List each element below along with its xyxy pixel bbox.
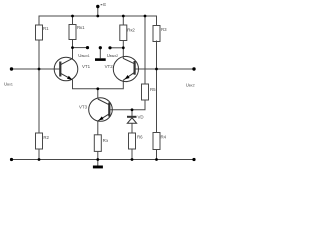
svg-text:VT3: VT3 [79, 104, 88, 109]
wire collector node to Uvyh1 terminal [73, 47, 88, 49]
wire VT2 base node to R4 [156, 69, 158, 133]
wire rail to Rk1 [72, 16, 74, 25]
resistor Rk2 [120, 25, 127, 41]
node rail junction Rk1 [71, 15, 74, 18]
node bottom R2 junction [38, 158, 41, 161]
wire input Uvx1 to VT1 base [12, 68, 61, 70]
wire bottom ground stub [97, 160, 99, 166]
resistor R5 [142, 84, 149, 100]
node rail junction Rk2 [122, 15, 125, 18]
svg-text:Uвых1: Uвых1 [78, 53, 89, 58]
node Uvyh2 terminal [108, 46, 111, 49]
wire top rail +E [39, 16, 157, 26]
node VT1 base junction [38, 68, 41, 71]
node bottom Re junction [96, 158, 99, 161]
node rail junction E [96, 15, 99, 18]
node common emitter junction [96, 87, 99, 90]
wire R5 to VD node [132, 100, 145, 110]
svg-text:Rэ: Rэ [103, 138, 109, 143]
wire R3 to VT2 base node [156, 41, 158, 70]
wire R4 to bottom rail [156, 150, 158, 160]
wire R2 to bottom rail [38, 149, 40, 160]
svg-text:R2: R2 [43, 135, 49, 140]
node rail junction R5 [144, 15, 147, 18]
node VD junction [131, 108, 134, 111]
wire Re to bottom rail [97, 151, 99, 159]
node collector VT1 junction [71, 46, 74, 49]
wire VT3 base to VD node [111, 109, 133, 111]
wire rail to R5 [144, 16, 146, 84]
wire R1 to base node [38, 40, 40, 69]
ground bottom [93, 166, 103, 169]
wire VT3 emitter to Re [97, 121, 99, 135]
svg-text:VD: VD [138, 115, 144, 120]
svg-text:Uвх2: Uвх2 [186, 82, 195, 87]
node bottom R4 junction [155, 158, 158, 161]
wire Rk1 to VT1 collector [72, 40, 74, 59]
wire common node to VT3 collector [97, 89, 99, 99]
transistor VT2 [113, 56, 138, 81]
wire R6 to bottom rail [131, 149, 133, 160]
wire bottom rail [12, 159, 195, 161]
svg-text:Uвх1: Uвх1 [4, 81, 13, 86]
svg-text:R1: R1 [43, 26, 49, 31]
wire rail to Rk2 [122, 16, 124, 25]
resistor Rk1 [69, 25, 76, 40]
transistor VT3 [89, 98, 113, 122]
svg-text:R3: R3 [161, 27, 167, 32]
svg-text:VT1: VT1 [82, 64, 91, 69]
resistor R2 [36, 133, 43, 149]
node bottom right terminal [192, 158, 195, 161]
wire Rk2 to VT2 collector [122, 41, 124, 59]
resistor R4 [153, 133, 160, 150]
node bottom R6 junction [131, 158, 134, 161]
svg-text:Rк1: Rк1 [77, 25, 85, 30]
svg-text:E: E [103, 2, 106, 7]
node input Uvx2 terminal [192, 67, 195, 70]
diode VD [127, 116, 137, 118]
wire diode to R6 [131, 123, 133, 133]
svg-text:R5: R5 [150, 87, 156, 92]
wire base node to R2 [38, 69, 40, 133]
wire ground stub middle [99, 48, 101, 59]
resistor Re [94, 135, 101, 152]
svg-text:Uвых2: Uвых2 [107, 53, 118, 58]
wire Uvyh2 terminal to Rk2 node [110, 47, 123, 49]
svg-text:VT2: VT2 [105, 64, 114, 69]
wire VT2 base to input Uvx2 [136, 68, 195, 70]
node ground terminal middle [99, 46, 102, 49]
wire VT1 emitter to common node [73, 80, 124, 89]
resistor R1 [36, 25, 43, 40]
svg-text:R6: R6 [137, 135, 143, 140]
node Uvyh1 terminal [86, 46, 89, 49]
svg-text:Rк2: Rк2 [127, 28, 135, 33]
label + sign of E [101, 4, 103, 6]
node collector VT2 junction [122, 46, 125, 49]
node bottom left terminal [10, 158, 13, 161]
node input Uvx1 terminal [10, 67, 13, 70]
wire VD node to diode [131, 110, 133, 116]
resistor R6 [129, 133, 136, 149]
ground middle [95, 58, 106, 61]
svg-text:R4: R4 [161, 135, 167, 140]
wire +E stub [97, 7, 99, 17]
resistor R3 [153, 26, 160, 42]
node VT2 base junction [155, 68, 158, 71]
node +E terminal [96, 5, 99, 8]
transistor VT1 [54, 57, 78, 81]
